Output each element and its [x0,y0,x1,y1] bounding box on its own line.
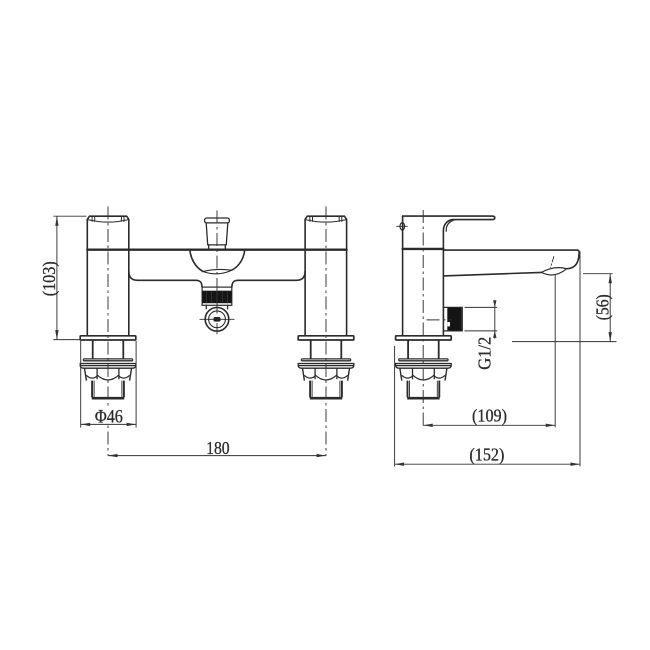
diverter knurled ring outline [202,287,232,305]
phi46 arrows [81,423,91,426]
spout top edge [443,250,579,269]
diverter knob body [206,223,228,245]
dim (56) extension lines [583,273,613,275]
svg-text:180: 180 [206,438,230,458]
spout aerator lens [542,268,567,275]
right pillar base assembly [298,336,354,398]
left pillar base assembly [80,336,136,398]
(56) arrows [609,274,612,284]
left pillar cap lip [88,220,129,223]
deck bridge top line [87,248,346,250]
left pillar valve body [87,216,129,336]
(152) arrows [395,463,405,466]
dim (152)/(56) right extension from spout tip [579,251,581,466]
right pillar valve body [305,216,347,336]
180 arrows [108,454,118,457]
left pillar center line [107,207,109,456]
dim (152) left extension [394,346,396,466]
dim G1/2 extension lines [465,306,498,308]
dim (109) right extension [554,275,556,428]
side indicator oval [400,223,405,230]
svg-text:(56): (56) [592,294,613,320]
dim phi46 line [81,423,136,425]
arrowheads [55,216,612,466]
dim phi46 extension lines [80,341,82,428]
side view lever handle [403,216,495,231]
right pillar cap ticks [310,216,342,221]
dim (152) line [395,463,580,465]
diverter bowl housing [190,250,245,272]
lever inner bend line [446,220,455,232]
G1/2 arrows (outside) [493,300,496,307]
bridge bottom left arm with fillet and step [129,271,202,287]
dim (103) line [56,216,58,339]
dim (103) extension lines [53,215,86,217]
aerator centerline tick [551,257,554,268]
right pillar center line [325,207,327,456]
spout bottom edge [443,272,541,276]
dim 180 line [108,455,326,457]
side view body slab [402,216,404,336]
side view base assembly [396,336,452,398]
svg-text:G1/2: G1/2 [475,337,495,370]
diverter knob neck [209,245,226,250]
(109) arrows [423,424,433,427]
svg-text:(109): (109) [472,406,507,427]
(103) arrows [55,216,58,226]
dim (109) line [423,424,555,426]
shower hose outlet circle [205,308,229,332]
diverter knob cap [205,218,230,223]
bridge bottom right arm with fillet and step [232,271,305,287]
dim (56) line [609,274,611,342]
G1/2 shower outlet stub [443,307,462,331]
svg-text:(152): (152) [469,444,504,465]
dimension text phi46 [94,409,124,424]
side body joint line [403,248,444,250]
svg-text:(103): (103) [39,261,60,296]
dimensions [53,216,616,466]
svg-text:Φ46: Φ46 [95,407,123,428]
side body center line [422,210,424,427]
diverter knurled ring black band [202,291,231,304]
center lines [108,207,452,456]
outlet crosshair horizontal [200,318,234,320]
stub center line horizontal [427,319,452,321]
diverter center line [216,211,218,335]
diverter outlet stubs [206,305,227,309]
left pillar cap ticks [92,216,124,221]
dim G1/2 line [494,300,496,339]
right pillar cap lip [306,220,347,223]
diverter bowl bottom lip [203,269,232,273]
dimension text 180 [205,441,232,455]
